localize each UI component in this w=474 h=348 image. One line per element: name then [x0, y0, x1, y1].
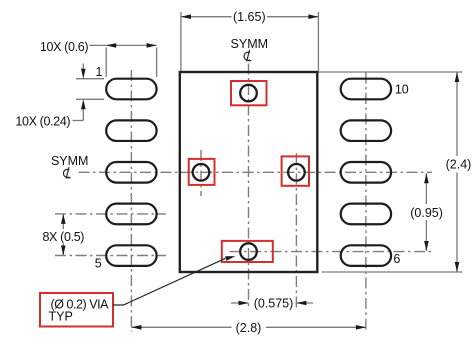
centerline symbol left	[63, 167, 70, 178]
centerline left pad column	[130, 70, 132, 332]
dimension (2.8)	[131, 326, 366, 328]
pad 5	[106, 245, 156, 266]
centerline horizontal SYMM row	[79, 171, 433, 173]
centerline pad row 4 left	[55, 213, 166, 215]
thermal pad rectangle	[180, 72, 317, 272]
dimension 8X (0.5)	[62, 214, 64, 256]
svg-text:TYP: TYP	[49, 310, 73, 324]
pad 6	[341, 245, 391, 266]
pad 8	[341, 162, 391, 183]
pad 7	[341, 204, 391, 225]
svg-text:SYMM: SYMM	[51, 154, 89, 168]
svg-text:10X (0.24): 10X (0.24)	[15, 115, 70, 129]
svg-text:10: 10	[395, 83, 409, 97]
dimension 10X (0.24)	[73, 64, 105, 121]
centerline vertical SYMM column	[248, 64, 250, 309]
svg-text:(2.8): (2.8)	[236, 321, 262, 335]
centerline symbol top	[244, 50, 251, 61]
via bottom	[240, 243, 257, 260]
via top	[240, 85, 257, 102]
red keepout box right via	[282, 156, 309, 185]
pad 1	[106, 79, 156, 100]
centerline bottom via row	[230, 251, 432, 253]
svg-text:(2.4): (2.4)	[446, 158, 472, 172]
pad 3	[106, 162, 156, 183]
via right	[288, 164, 305, 181]
dimension (1.65)	[181, 12, 319, 71]
via left	[193, 164, 210, 181]
svg-text:SYMM: SYMM	[231, 37, 269, 51]
pad 2	[106, 120, 156, 141]
red keepout box left via	[189, 159, 215, 185]
pad 9	[341, 120, 391, 141]
red keepout box top via	[231, 81, 267, 105]
svg-text:8X (0.5): 8X (0.5)	[42, 230, 84, 244]
centerline pad row 5 left	[55, 255, 166, 257]
svg-text:5: 5	[95, 257, 102, 271]
svg-text:6: 6	[393, 252, 400, 266]
dimension (0.95)	[425, 173, 427, 251]
pad 10	[341, 79, 391, 100]
red keepout box bottom via	[222, 241, 273, 262]
via callout red box	[40, 293, 113, 327]
pad 4	[106, 204, 156, 225]
centerline left via vertical	[200, 150, 202, 196]
svg-text:(0.575): (0.575)	[254, 297, 294, 311]
svg-text:10X (0.6): 10X (0.6)	[40, 40, 88, 54]
svg-text:(0.95): (0.95)	[410, 206, 443, 220]
svg-text:(1.65): (1.65)	[233, 10, 266, 24]
via callout leader	[113, 258, 226, 305]
dimension (0.575)	[231, 302, 313, 304]
centerline right pad column	[365, 73, 367, 333]
centerline right via vertical	[295, 153, 297, 308]
svg-text:1: 1	[96, 65, 103, 79]
dimension (2.4)	[319, 72, 463, 272]
